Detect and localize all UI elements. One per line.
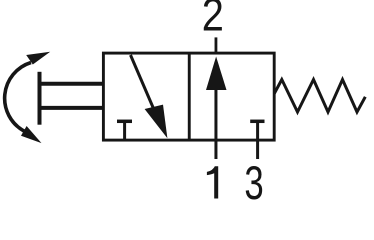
position divider line	[188, 53, 191, 140]
blocked port T (right square)	[250, 120, 264, 124]
port label 2	[202, 0, 224, 41]
return spring	[274, 80, 365, 113]
lever upper rod	[38, 82, 103, 86]
port label 3	[244, 157, 263, 209]
rotation arrowhead bottom	[21, 126, 42, 143]
diagonal arrowhead	[145, 105, 168, 139]
flow path 1->2 vertical line + port 1 line	[214, 88, 217, 159]
flow path 2->3 diagonal line (left square)	[131, 55, 156, 112]
port label 1	[207, 166, 218, 198]
rotation arrowhead top	[26, 52, 50, 65]
svg-text:2: 2	[202, 0, 224, 41]
rotation arc	[5, 63, 31, 132]
valve body outline	[103, 53, 274, 140]
lever lower rod	[38, 106, 103, 110]
up arrowhead	[206, 57, 227, 91]
svg-text:3: 3	[244, 157, 263, 202]
port 2 line	[215, 37, 218, 54]
port 3 line	[256, 121, 259, 159]
blocked port T (left square)	[123, 121, 126, 140]
lever vertical bar	[38, 72, 42, 125]
